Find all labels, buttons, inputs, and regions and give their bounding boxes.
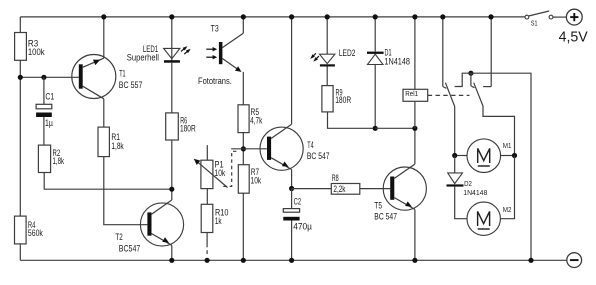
diode D1 (1N4148) <box>367 52 384 65</box>
node T1 top rail <box>101 14 106 19</box>
svg-text:1,8k: 1,8k <box>111 141 124 151</box>
label R10 <box>215 207 229 226</box>
wire R9 to coil node rail <box>328 112 376 128</box>
label C1 value <box>45 118 53 128</box>
node LED2 top rail <box>325 14 330 19</box>
label T3 <box>211 24 219 34</box>
svg-text:C2: C2 <box>294 196 302 206</box>
wire P1 top stub <box>206 145 208 160</box>
label R3 value <box>28 38 45 57</box>
label T2 <box>115 232 122 242</box>
svg-text:1N4148: 1N4148 <box>384 56 410 66</box>
wire D1 from top rail <box>374 17 376 52</box>
node LED1 top rail <box>169 14 174 19</box>
wire left rail upper (to R3) <box>19 17 21 33</box>
label D1 <box>385 48 392 58</box>
svg-text:BC 557: BC 557 <box>119 80 143 90</box>
wire M1 right <box>501 155 515 157</box>
label R8 <box>332 173 339 183</box>
label Fototrans <box>198 76 232 86</box>
node D1 top rail <box>373 14 378 19</box>
label T4 <box>307 140 313 150</box>
phototransistor T3 <box>219 33 243 72</box>
wire S1 to battery plus <box>553 16 567 18</box>
wire T3 emitter to R5 <box>242 72 244 105</box>
svg-text:BC547: BC547 <box>119 244 141 254</box>
svg-text:470µ: 470µ <box>293 222 312 232</box>
label C1 <box>45 92 54 102</box>
label P1 <box>215 159 226 178</box>
LED2 light arrows <box>310 53 319 61</box>
node A divider junction <box>241 146 246 151</box>
T3 light arrow 1 <box>206 47 217 51</box>
motor M2 <box>467 202 500 235</box>
wire node B to R8 <box>292 188 332 190</box>
node contact rail 2 <box>488 14 493 19</box>
wire C2 to bottom rail <box>291 221 293 261</box>
node Rel1 coil junction <box>412 126 417 131</box>
transistor T5 (BC 547) <box>383 164 426 210</box>
wire top supply rail <box>20 16 525 18</box>
transistor T1 (BC 557) <box>72 55 116 99</box>
svg-text:T5: T5 <box>374 201 382 211</box>
node contact rail 1 <box>440 14 445 19</box>
switch S1 lever <box>529 11 550 16</box>
label C2 <box>294 196 302 206</box>
wire left rail middle (R3 to R4) <box>19 60 21 216</box>
node T2 emitter bottom rail <box>169 258 174 263</box>
wire M2 right <box>500 156 514 219</box>
node M1 right <box>512 153 517 158</box>
svg-text:4,5V: 4,5V <box>559 29 588 45</box>
label T1 type <box>119 80 143 90</box>
resistor R4 <box>15 216 27 244</box>
node left rail / base junction <box>18 75 23 80</box>
wire C1 top <box>43 77 45 104</box>
node T4 top rail <box>289 14 294 19</box>
relay contact pole2 fixed throw (from rail) <box>483 17 491 87</box>
label T5 type <box>374 211 397 221</box>
diode D2 (1N4148) <box>447 173 464 187</box>
label D1 type <box>384 56 410 66</box>
relay actuation dashed link <box>428 94 470 96</box>
label D2 <box>464 181 472 188</box>
wire bottom rail <box>20 259 567 261</box>
label T1 <box>119 68 125 78</box>
wire D1 to coil node <box>374 65 376 129</box>
label R1 <box>111 132 124 151</box>
svg-text:BC 547: BC 547 <box>307 151 330 161</box>
transistor T2 (BC547) <box>140 200 183 246</box>
relay contact pole2 lever <box>474 83 515 156</box>
svg-text:LED2: LED2 <box>339 48 356 58</box>
switch S1 contact right <box>549 15 553 19</box>
label T4 type <box>307 151 330 161</box>
wire T4 emitter to node B <box>291 170 293 189</box>
node T3 top rail <box>241 14 246 19</box>
label LED1 <box>143 44 158 54</box>
wire center node to right drop <box>471 73 531 260</box>
transistor T4 (BC 547) <box>260 124 303 170</box>
resistor R7 <box>238 165 249 194</box>
wire LED2 from top rail <box>326 17 328 54</box>
label 4,5V <box>559 29 588 45</box>
wire Rel1 from top rail <box>414 17 416 89</box>
label R9 <box>335 88 351 106</box>
svg-text:C1: C1 <box>45 92 54 102</box>
wire P1 bottom to R10 <box>206 189 208 205</box>
label S1 <box>531 21 538 28</box>
svg-text:Fototrans.: Fototrans. <box>198 76 232 86</box>
wire T1 base from left rail <box>20 76 79 78</box>
svg-text:T4: T4 <box>307 140 313 150</box>
resistor R5 <box>238 105 249 133</box>
node C2 bottom rail <box>289 258 294 263</box>
capacitor C1 <box>36 104 52 117</box>
svg-text:S1: S1 <box>531 21 538 28</box>
relay contact pole1 inner throw <box>455 73 471 86</box>
wire R1 to T2 base <box>104 157 148 225</box>
wire T1 emitter to top rail <box>103 17 105 58</box>
svg-text:1k: 1k <box>215 216 222 226</box>
svg-text:1,8k: 1,8k <box>53 156 65 166</box>
svg-text:T3: T3 <box>211 24 219 34</box>
label R5 <box>250 107 263 125</box>
node T2 collector / R2 junction <box>169 187 174 192</box>
relay contact center throws node <box>468 71 473 76</box>
wire LED1 to R6 <box>171 63 173 113</box>
svg-text:T1: T1 <box>119 68 125 78</box>
wire R7 to bottom rail <box>242 193 244 260</box>
label LED2 <box>339 48 356 58</box>
potentiometer P1 <box>194 159 228 189</box>
LED LED1 <box>164 48 180 62</box>
wire R5 to R7 (node A) <box>242 133 244 165</box>
wire R8 to T5 base <box>360 188 390 190</box>
T3 light arrow 2 <box>206 55 217 59</box>
LED LED2 <box>320 54 335 66</box>
label R6 <box>180 115 196 133</box>
node Rel1 top rail <box>412 14 417 19</box>
svg-text:180R: 180R <box>335 95 351 105</box>
resistor R8 <box>331 184 360 195</box>
label D2 type <box>463 188 487 197</box>
svg-text:T2: T2 <box>115 232 122 242</box>
svg-text:BC 547: BC 547 <box>374 211 397 221</box>
wire P1 wiper dashed <box>223 151 238 186</box>
label M2 <box>503 207 512 214</box>
label R8 value <box>333 184 345 194</box>
svg-text:10k: 10k <box>215 168 226 178</box>
node T5 emitter bottom rail <box>412 258 417 263</box>
battery minus terminal <box>567 253 582 268</box>
label R7 <box>251 167 262 186</box>
wire T5 emitter to bottom rail <box>414 209 416 260</box>
relay contact pole2 inner throw <box>471 73 475 88</box>
switch S1 contact left <box>525 15 529 19</box>
battery plus terminal <box>566 9 582 25</box>
svg-text:Superhell: Superhell <box>127 52 159 62</box>
LED1 light arrows <box>181 46 191 54</box>
wire T4 collector to top rail <box>291 17 293 124</box>
resistor R1 <box>98 127 109 157</box>
svg-text:D2: D2 <box>464 181 472 188</box>
wire LED1 from top rail <box>171 17 173 60</box>
wire pole1 lever to M1 left <box>454 107 456 156</box>
resistor R2 <box>38 145 50 172</box>
svg-text:R8: R8 <box>332 173 339 183</box>
label M1 <box>503 143 512 150</box>
wire Rel1 bottom <box>414 101 416 128</box>
wire T3 collector to top rail <box>242 17 244 33</box>
label R4 <box>28 220 43 238</box>
label Rel1 <box>405 91 418 98</box>
wire R6 to T2 collector <box>171 140 173 200</box>
svg-text:560k: 560k <box>28 228 43 238</box>
label LED1 Superhell <box>127 52 159 62</box>
label R2 <box>53 148 65 166</box>
wire node B to C2 <box>291 189 293 209</box>
svg-text:M1: M1 <box>503 143 512 150</box>
wire coil node horizontal <box>375 127 415 129</box>
svg-text:Rel1: Rel1 <box>405 91 418 98</box>
svg-text:100k: 100k <box>28 47 45 57</box>
svg-text:4,7k: 4,7k <box>250 115 263 125</box>
svg-text:1µ: 1µ <box>45 118 53 128</box>
wire C1 bottom to R2 <box>43 117 45 145</box>
node M1 left <box>452 153 457 158</box>
svg-text:1N4148: 1N4148 <box>463 188 487 197</box>
label C2 value <box>293 222 312 232</box>
label T5 <box>374 201 382 211</box>
relay contact pole1 fixed throw (from rail) <box>443 17 447 89</box>
wire node A to T4 base <box>231 148 267 150</box>
capacitor C2 <box>283 209 299 221</box>
node C1 branch junction <box>41 75 46 80</box>
wire T1 collector to R1 <box>103 99 105 127</box>
node B emitter junction <box>289 186 294 191</box>
wire M1 left <box>455 155 467 157</box>
resistor R6 <box>166 113 179 140</box>
wire left rail lower (R4 to bottom rail) <box>19 244 21 260</box>
label T2 type <box>119 244 141 254</box>
relay coil Rel1 <box>403 89 428 101</box>
resistor R9 <box>322 86 333 112</box>
svg-text:2,2k: 2,2k <box>333 184 345 194</box>
svg-text:10k: 10k <box>251 176 262 186</box>
wire M1 left to D2 <box>454 156 456 173</box>
wire LED2 to R9 <box>326 67 328 86</box>
wire R2 bottom to node <box>44 173 172 190</box>
node R7 bottom rail <box>241 258 246 263</box>
resistor R3 <box>15 33 27 61</box>
node right drop bottom rail <box>528 258 533 263</box>
svg-text:180R: 180R <box>180 123 196 133</box>
relay contact pole1 lever <box>445 83 454 107</box>
wire T2 emitter to bottom rail <box>171 245 173 260</box>
wire R10 bottom (broken) <box>206 233 208 255</box>
motor M1 <box>467 139 501 173</box>
resistor R10 <box>201 204 213 232</box>
wire T5 collector to coil node <box>414 128 416 164</box>
node R10 bottom rail <box>205 258 210 263</box>
wire D2 to M2 left <box>455 187 467 219</box>
node D1 coil junction <box>373 126 378 131</box>
svg-text:M2: M2 <box>503 207 512 214</box>
